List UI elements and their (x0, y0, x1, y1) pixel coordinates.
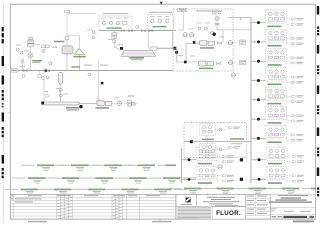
instrument column left of distribution line (92, 31, 99, 40)
lower package unit B outputs (215, 146, 240, 150)
dosing skid dashed box A (99, 16, 132, 31)
right fold mark solid E (317, 168, 319, 177)
second column header vertical (181, 148, 183, 183)
drawing title lines (269, 194, 316, 202)
logo caption (181, 204, 193, 205)
left fold mark solid B (2, 76, 4, 85)
drop to day tank right (156, 31, 176, 50)
upper-left valve stack (28, 38, 34, 47)
revision table row lines (10, 197, 176, 216)
distribution pipe top (99, 30, 176, 32)
inline fitting dark (45, 69, 51, 72)
dosing unit row 5 (251, 87, 304, 104)
package link to header top (229, 18, 252, 21)
second column unit row 1 (182, 147, 235, 164)
left fold mark solid C (2, 113, 4, 122)
dosing skid dashed box B (148, 15, 174, 30)
tag label 12-XV group (32, 60, 52, 65)
metering pump package dashed box (173, 9, 233, 71)
inline strainer capsule (59, 72, 63, 101)
right fold mark solid D (317, 128, 319, 137)
dosing unit row 1 (251, 10, 304, 27)
company name lines (203, 197, 239, 205)
vent piping above vessel (64, 10, 96, 36)
right fold marks group 3 (317, 106, 319, 115)
riser from storage to pumps (98, 61, 103, 101)
cone tank (74, 36, 84, 71)
line list row right half (168, 188, 316, 194)
green tag above inlet line (72, 66, 81, 67)
outer sheet edge line (2, 3, 4, 224)
sub row marks (270, 208, 312, 211)
valves on distribution pipe (121, 26, 153, 32)
line note tags (84, 65, 108, 76)
discharge instrument (112, 101, 122, 105)
right fold marks group 1 (317, 27, 319, 36)
dosing unit row 8 (252, 147, 305, 164)
dosing unit row 3 (251, 49, 304, 66)
right fold marks group 5 (317, 188, 319, 197)
package interior tags (178, 23, 224, 57)
below frame note centre (152, 221, 171, 223)
drawing number (272, 216, 315, 218)
day tank tag (130, 57, 145, 60)
revision header text marks (11, 194, 160, 197)
skid A caption (103, 13, 128, 14)
instrument below package (231, 71, 235, 77)
right fold marks group 2 (317, 66, 319, 75)
skid B caption (149, 12, 172, 13)
top off-page connector (178, 8, 187, 30)
package out instrument bottom (226, 60, 246, 65)
pump suction header bar (41, 102, 82, 109)
metering pump 2 (199, 61, 221, 69)
line list row 1 (21, 164, 176, 170)
below frame note left (28, 221, 47, 223)
control valve station to header (122, 95, 137, 106)
lower package discharge tag (230, 138, 244, 144)
second column unit row 2 valve node (240, 178, 243, 181)
dashes to vessel (49, 45, 58, 47)
analyzer drop from skid B (147, 30, 149, 49)
lower package unit B (200, 143, 216, 155)
field labels (247, 196, 268, 214)
lower package unit A tag (202, 139, 214, 141)
left fold small dots (2, 103, 4, 107)
cone tank tag (73, 56, 85, 58)
inlet line flag (10, 69, 18, 72)
fluor logotype box (213, 205, 246, 219)
lower dosing package dashed box (184, 123, 247, 158)
second column unit row 1 valve node (240, 158, 243, 161)
mid instrument between bottom rows (218, 165, 222, 169)
field rows centre (246, 194, 271, 216)
black node at tank inlet (120, 47, 123, 50)
frame centre tick right (316, 112, 318, 114)
scattered instrument tags (16, 30, 123, 99)
right fold mark solid C (317, 86, 319, 95)
lower package unit A (200, 124, 216, 136)
package caption (196, 10, 222, 11)
line list row 3 (5, 189, 188, 195)
dosing unit row 2 (251, 29, 304, 46)
transfer pumps PA-001 (79, 101, 112, 109)
package top vent valve (213, 11, 222, 28)
package inlet isolation valve (213, 33, 216, 36)
main seawater inlet line (10, 70, 173, 72)
revision table column lines (14, 194, 140, 219)
revision table frame (10, 194, 176, 219)
below frame note right (293, 220, 314, 222)
lower package supply line (184, 136, 251, 148)
NC flag (46, 95, 49, 97)
right fold mark solid A (317, 6, 319, 15)
lower package unit A outputs (215, 127, 240, 132)
header tag lines (66, 107, 80, 111)
frame centre tick bottom (159, 219, 161, 222)
left fold marks group 1 (2, 27, 4, 43)
inline valve V1 on inlet (23, 69, 27, 71)
title sub row (271, 207, 317, 214)
title block dividers (176, 194, 271, 219)
scale cells (277, 215, 308, 219)
line list row 2 (12, 177, 196, 183)
left fold marks group 2 (2, 90, 4, 100)
second column unit row 2 (182, 167, 235, 184)
drop to day tank left (112, 31, 121, 50)
package out instrument top (226, 40, 246, 45)
fluor daniel logo square (186, 197, 191, 202)
metering pump 1 (200, 41, 222, 49)
instrument circles left of stack (16, 48, 23, 54)
instrument pair at inlet line (21, 60, 49, 79)
XV valve cluster (34, 45, 49, 52)
certification paragraph (177, 207, 211, 219)
hypochlorite vessel DA-001 (62, 37, 73, 71)
revision hatch right (112, 198, 122, 219)
dosing unit row 7 (251, 126, 304, 143)
revision hatch left (57, 198, 72, 219)
drop to pump header (43, 71, 45, 102)
frame centre tick top (160, 2, 163, 5)
left fold marks group 4 (2, 168, 4, 178)
package internal piping (177, 41, 200, 63)
distribution header vertical (250, 18, 252, 184)
day tank basin (121, 50, 156, 56)
right fold mark solid B (317, 45, 319, 54)
frame centre tick left (8, 112, 10, 114)
tank tag above vessel (54, 41, 65, 43)
pump discharge riser (217, 28, 251, 43)
dosing unit row 9 (252, 167, 305, 184)
right fold marks group 4 (317, 148, 319, 157)
revision row 1 entry (11, 198, 41, 202)
dosing unit row 4 (251, 68, 304, 85)
package instruments row (183, 27, 214, 37)
left fold mark solid D (2, 155, 4, 164)
package feed node (150, 47, 178, 62)
dosing unit row 6 (251, 106, 304, 123)
title block outer (176, 194, 316, 219)
left fold mark solid A (2, 56, 4, 66)
control valve below stack (28, 46, 33, 70)
svg-text:FLUOR.: FLUOR. (216, 210, 241, 217)
left fold marks group 3 (2, 127, 4, 137)
sample station below line (38, 71, 44, 80)
